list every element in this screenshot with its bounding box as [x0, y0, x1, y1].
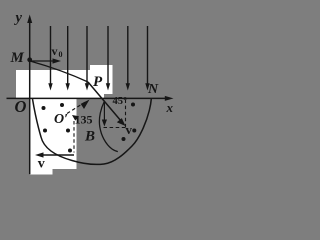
svg-text:0: 0: [59, 50, 63, 59]
rain arrow 4: [106, 26, 110, 91]
svg-text:v: v: [38, 157, 45, 172]
y-axis: [29, 21, 31, 174]
field dot 4: [66, 129, 70, 133]
v0 arrow: [31, 58, 61, 63]
rain arrow 2: [66, 26, 70, 91]
svg-text:x: x: [166, 100, 174, 115]
field dot 5: [68, 149, 72, 153]
field dot 1: [42, 106, 46, 110]
angle arrow for 135: [72, 115, 79, 121]
svg-text:v: v: [52, 44, 58, 58]
svg-text:P: P: [93, 74, 103, 90]
field dot 6: [131, 103, 135, 107]
parabola trajectory from M: [30, 61, 88, 82]
white slab band above x-axis: [16, 70, 104, 98]
svg-text:B: B: [84, 129, 95, 145]
svg-text:O′: O′: [54, 112, 68, 127]
field dot 8: [132, 129, 136, 133]
svg-text:135: 135: [75, 113, 93, 127]
big field-region circle below axis: [33, 99, 152, 164]
field dot 2: [60, 103, 64, 107]
field dot 7: [122, 137, 126, 141]
svg-text:v: v: [126, 122, 133, 137]
svg-text:O: O: [15, 97, 27, 116]
white box around P: [90, 65, 113, 94]
particle arc from Q curving in field: [99, 102, 117, 152]
rain arrow 3: [85, 26, 89, 91]
white block below x-axis: [30, 98, 77, 169]
dashed rect: horizontal bottom side: [104, 127, 126, 129]
x-axis: [7, 97, 166, 99]
point M dot: [27, 57, 32, 62]
rain arrow 1: [48, 26, 52, 91]
field dot 3: [43, 129, 47, 133]
svg-text:y: y: [14, 10, 23, 26]
v arrow at bottom (velocity at B): [35, 152, 74, 157]
rain arrow 5: [126, 26, 130, 91]
dashed arrow from O' up-right toward Q: [67, 102, 85, 113]
dashed rect: vertical right side: [125, 100, 127, 128]
svg-text:M: M: [10, 50, 25, 66]
rain arrow 6: [145, 26, 149, 91]
dashed radius O'B: [73, 121, 75, 153]
svg-text:N: N: [147, 82, 159, 97]
velocity vector v at 45 deg (same stroke continues from trajectory end above axis): [88, 82, 126, 126]
vy component arrow: [102, 101, 107, 127]
